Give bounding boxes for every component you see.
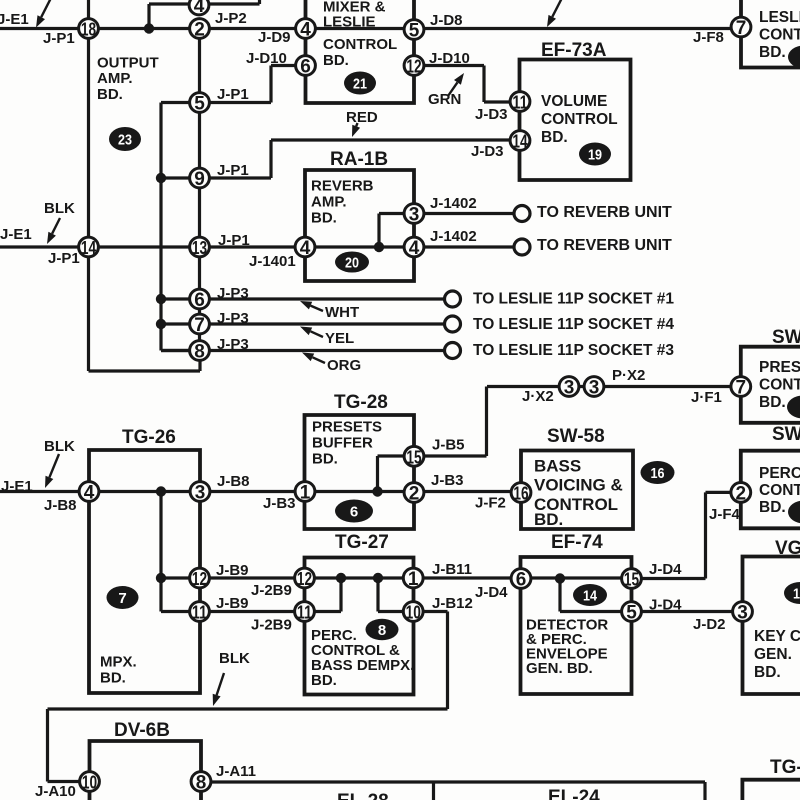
svg-text:6: 6 [350, 503, 358, 520]
svg-text:3: 3 [737, 603, 748, 624]
svg-text:TO LESLIE 11P SOCKET #3: TO LESLIE 11P SOCKET #3 [473, 342, 674, 359]
svg-text:WHT: WHT [325, 304, 359, 321]
svg-text:7: 7 [118, 590, 126, 607]
svg-text:4: 4 [84, 483, 95, 504]
svg-text:J-B9: J-B9 [216, 562, 249, 579]
svg-text:BD.: BD. [534, 510, 563, 529]
svg-text:15: 15 [624, 569, 639, 590]
svg-text:J-P1: J-P1 [218, 232, 250, 249]
svg-text:J-P2: J-P2 [215, 10, 247, 27]
svg-text:J-D3: J-D3 [475, 106, 508, 123]
svg-text:AMP.: AMP. [97, 70, 133, 87]
svg-text:10: 10 [406, 602, 421, 623]
svg-text:3: 3 [589, 378, 600, 399]
svg-text:J·X2: J·X2 [522, 388, 554, 405]
svg-text:J-E1: J-E1 [0, 226, 32, 243]
svg-text:J-P1: J-P1 [217, 86, 249, 103]
svg-text:CONTROL: CONTROL [323, 36, 397, 53]
svg-text:6: 6 [300, 57, 311, 78]
svg-text:8: 8 [378, 622, 386, 639]
svg-text:SW-: SW- [772, 424, 800, 445]
svg-text:CONTROL: CONTROL [541, 111, 618, 128]
svg-text:GRN: GRN [428, 91, 461, 108]
svg-text:J-F4: J-F4 [709, 506, 741, 523]
svg-text:SW-: SW- [772, 327, 800, 348]
svg-text:13: 13 [192, 237, 207, 258]
svg-text:EL-28: EL-28 [337, 791, 389, 800]
svg-text:J·F1: J·F1 [691, 389, 722, 406]
svg-text:CONTROL: CONTROL [759, 482, 800, 499]
svg-text:7: 7 [736, 18, 747, 39]
svg-text:J-2B9: J-2B9 [251, 582, 292, 599]
svg-text:15: 15 [406, 446, 421, 467]
svg-text:BD.: BD. [759, 44, 786, 61]
svg-text:6: 6 [194, 290, 205, 311]
svg-text:J-1402: J-1402 [430, 195, 477, 212]
svg-text:12: 12 [297, 568, 312, 589]
svg-text:BD.: BD. [100, 670, 126, 687]
svg-text:REVERB: REVERB [311, 177, 374, 194]
svg-text:4: 4 [409, 238, 420, 259]
svg-text:LESLIE: LESLIE [323, 13, 376, 30]
svg-text:CONTROL: CONTROL [759, 376, 800, 393]
svg-text:J-P1: J-P1 [48, 250, 80, 267]
svg-text:5: 5 [409, 21, 420, 42]
svg-text:8: 8 [194, 342, 205, 363]
svg-text:TO LESLIE 11P SOCKET #1: TO LESLIE 11P SOCKET #1 [473, 290, 674, 307]
svg-text:J-D4: J-D4 [475, 584, 508, 601]
svg-text:8: 8 [196, 773, 207, 794]
svg-text:BUFFER: BUFFER [312, 434, 373, 451]
svg-text:19: 19 [588, 146, 602, 163]
svg-text:J-B8: J-B8 [217, 473, 250, 490]
svg-text:3: 3 [195, 483, 206, 504]
svg-text:J-P1: J-P1 [217, 162, 249, 179]
svg-text:J-A11: J-A11 [216, 763, 256, 780]
svg-text:J-2B9: J-2B9 [251, 617, 292, 634]
svg-text:EL-24: EL-24 [548, 787, 600, 800]
svg-text:BD.: BD. [759, 499, 786, 516]
svg-text:4: 4 [300, 238, 311, 259]
svg-text:J-B11: J-B11 [432, 561, 472, 578]
svg-text:TO REVERB UNIT: TO REVERB UNIT [537, 237, 672, 254]
svg-text:18: 18 [81, 19, 96, 40]
svg-text:BLK: BLK [44, 200, 75, 217]
svg-text:J-F8: J-F8 [693, 29, 724, 46]
svg-text:6: 6 [516, 570, 527, 591]
svg-text:3: 3 [409, 205, 420, 226]
svg-text:11: 11 [512, 92, 527, 113]
svg-text:MPX.: MPX. [100, 654, 137, 671]
svg-text:11: 11 [297, 602, 312, 623]
svg-text:3: 3 [564, 378, 575, 399]
svg-text:VOICING &: VOICING & [534, 475, 623, 494]
svg-text:VG-: VG- [775, 538, 800, 559]
svg-text:BD.: BD. [323, 52, 349, 69]
svg-text:J-D4: J-D4 [649, 561, 682, 578]
svg-text:J-D4: J-D4 [649, 597, 682, 614]
svg-text:J-E1: J-E1 [1, 478, 33, 495]
svg-text:9: 9 [194, 169, 205, 190]
svg-text:J-D10: J-D10 [246, 50, 287, 67]
svg-text:DV-6B: DV-6B [114, 720, 170, 741]
svg-text:J-1401: J-1401 [249, 253, 296, 270]
svg-text:GEN. BD.: GEN. BD. [526, 660, 593, 677]
svg-text:SW-58: SW-58 [547, 426, 605, 447]
svg-text:23: 23 [118, 131, 132, 148]
svg-text:TO REVERB UNIT: TO REVERB UNIT [537, 204, 672, 221]
svg-text:AMP.: AMP. [311, 193, 347, 210]
svg-text:1: 1 [300, 483, 311, 504]
svg-text:15: 15 [793, 585, 800, 602]
svg-text:J-P1: J-P1 [43, 30, 75, 47]
svg-text:J-D3: J-D3 [471, 143, 504, 160]
svg-text:2: 2 [194, 20, 205, 41]
svg-text:YEL: YEL [325, 330, 354, 347]
svg-text:2: 2 [409, 484, 420, 505]
svg-text:BD.: BD. [97, 86, 123, 103]
svg-text:J-P3: J-P3 [217, 336, 249, 353]
svg-text:TG-28: TG-28 [334, 392, 388, 413]
svg-text:BD.: BD. [311, 209, 337, 226]
svg-text:14: 14 [583, 587, 598, 604]
svg-text:J-B3: J-B3 [431, 472, 464, 489]
svg-text:BD.: BD. [754, 664, 781, 681]
svg-text:14: 14 [512, 131, 528, 152]
svg-text:J-E1: J-E1 [0, 11, 29, 28]
svg-text:10: 10 [82, 772, 97, 793]
svg-text:J-B5: J-B5 [432, 436, 465, 453]
svg-text:BLK: BLK [44, 438, 75, 455]
svg-text:BLK: BLK [219, 650, 250, 667]
svg-text:PRESETS: PRESETS [759, 359, 800, 376]
svg-text:KEY CIR: KEY CIR [754, 628, 800, 645]
svg-text:TO LESLIE 11P SOCKET #4: TO LESLIE 11P SOCKET #4 [473, 316, 674, 333]
svg-text:J-D9: J-D9 [258, 29, 291, 46]
svg-text:J-D10: J-D10 [429, 50, 470, 67]
svg-text:5: 5 [194, 94, 205, 115]
svg-text:12: 12 [406, 56, 421, 77]
svg-text:1: 1 [408, 569, 419, 590]
svg-text:20: 20 [345, 254, 359, 271]
svg-text:BD.: BD. [541, 129, 568, 146]
svg-text:ORG: ORG [327, 357, 361, 374]
svg-text:P·X2: P·X2 [612, 367, 645, 384]
svg-text:BD.: BD. [312, 450, 338, 467]
svg-text:5: 5 [626, 603, 637, 624]
svg-text:TG-26: TG-26 [122, 427, 176, 448]
svg-text:RED: RED [346, 109, 378, 126]
svg-text:7: 7 [194, 315, 205, 336]
svg-text:EF-74: EF-74 [551, 532, 603, 553]
svg-text:PERC.: PERC. [759, 465, 800, 482]
svg-text:14: 14 [81, 237, 97, 258]
svg-text:BD.: BD. [311, 672, 337, 689]
svg-text:J-1402: J-1402 [430, 228, 477, 245]
svg-text:J-A10: J-A10 [35, 783, 76, 800]
svg-text:J-P3: J-P3 [217, 310, 249, 327]
svg-text:4: 4 [300, 20, 311, 41]
svg-text:J-D2: J-D2 [693, 616, 726, 633]
svg-text:11: 11 [192, 602, 207, 623]
svg-text:J-B12: J-B12 [432, 595, 473, 612]
svg-text:4: 4 [194, 0, 205, 17]
svg-text:J-D8: J-D8 [430, 12, 463, 29]
svg-text:OUTPUT: OUTPUT [97, 55, 159, 72]
svg-text:16: 16 [651, 465, 665, 482]
svg-text:21: 21 [353, 75, 367, 92]
svg-text:BD.: BD. [759, 394, 786, 411]
svg-text:VOLUME: VOLUME [541, 93, 607, 110]
svg-text:BASS: BASS [534, 456, 581, 475]
svg-text:12: 12 [192, 568, 207, 589]
svg-text:16: 16 [513, 483, 528, 504]
svg-text:7: 7 [736, 378, 747, 399]
svg-text:J-F2: J-F2 [475, 494, 506, 511]
svg-text:J-P3: J-P3 [217, 285, 249, 302]
svg-text:TG-27: TG-27 [335, 532, 389, 553]
svg-text:2: 2 [736, 483, 747, 504]
svg-text:GEN.: GEN. [754, 646, 792, 663]
svg-text:LESLIE: LESLIE [759, 9, 800, 26]
svg-text:CONTROL: CONTROL [759, 26, 800, 43]
svg-text:TG-: TG- [770, 757, 800, 778]
svg-text:EF-73A: EF-73A [541, 40, 607, 61]
svg-text:J-B9: J-B9 [216, 595, 249, 612]
svg-text:PRESETS: PRESETS [312, 418, 382, 435]
svg-text:J-B8: J-B8 [44, 497, 77, 514]
svg-text:J-B3: J-B3 [263, 495, 296, 512]
svg-text:RA-1B: RA-1B [330, 149, 388, 170]
